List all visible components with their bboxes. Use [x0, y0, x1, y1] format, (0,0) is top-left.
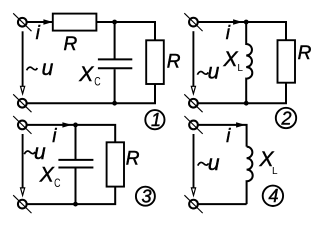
capacitor XC (circuit 3) — [58, 160, 93, 168]
wire (circuit 3 top) — [27, 125, 116, 142]
circled number 1 — [145, 110, 164, 130]
svg-text:L: L — [272, 166, 278, 177]
inductor XL (circuit 4) — [247, 147, 253, 205]
svg-text:L: L — [237, 63, 243, 74]
svg-text:R: R — [298, 43, 312, 64]
terminal J5 (circuit 3 top input) — [13, 116, 31, 134]
label ~u (circuit 4) — [198, 152, 220, 175]
svg-text:3: 3 — [142, 187, 152, 207]
svg-text:C: C — [94, 75, 101, 89]
svg-text:C: C — [54, 176, 61, 190]
terminal J6 (circuit 3 bottom) — [13, 195, 31, 213]
wire (circuit 1 top, R to right corner and down) — [96, 22, 155, 40]
terminal J8 (circuit 4 bottom) — [184, 195, 202, 213]
svg-text:u: u — [42, 57, 54, 80]
capacitor XC (circuit 1) — [98, 59, 132, 68]
terminal J4 (circuit 2 bottom) — [184, 94, 202, 112]
svg-text:u: u — [34, 141, 46, 164]
resistor R (circuit 2) — [278, 40, 296, 82]
resistor R series (circuit 1) — [53, 14, 97, 31]
wire (circuit 2 top) — [198, 22, 286, 40]
node (circuit 2 bottom junction) — [244, 101, 249, 106]
label XC (circuit 1) — [78, 63, 101, 89]
circled number 4 — [263, 186, 283, 207]
svg-text:X: X — [39, 164, 55, 187]
wire (circuit 3 capacitor bottom lead) — [75, 169, 77, 205]
current arrow i (circuit 3) — [62, 122, 71, 127]
svg-text:u: u — [208, 61, 220, 84]
wire (circuit 4 bottom) — [198, 203, 247, 205]
wire (circuit 1 capacitor bottom lead) — [114, 69, 116, 103]
circled number 3 — [136, 187, 155, 207]
node (circuit 1 top junction) — [112, 20, 117, 25]
label ~u (circuit 1) — [27, 57, 54, 80]
voltage arrow u (circuit 4) — [191, 134, 195, 195]
wire (circuit 1 bottom, R down and left to terminal) — [27, 84, 155, 103]
node (circuit 3 bottom junction) — [73, 202, 78, 207]
svg-text:u: u — [208, 152, 220, 175]
wire (circuit 3 bottom) — [27, 187, 115, 205]
terminal J7 (circuit 4 top input) — [184, 116, 202, 134]
node (circuit 2 top junction) — [244, 20, 249, 25]
voltage arrow u (circuit 3) — [21, 134, 25, 195]
label XL (circuit 2) — [223, 48, 244, 74]
inductor XL (circuit 2) — [246, 22, 252, 103]
svg-text:R: R — [167, 52, 181, 73]
terminal J1 (circuit 1 top input) — [13, 13, 31, 31]
wire (circuit 1 capacitor top lead) — [114, 22, 116, 59]
current arrow i (circuit 1) — [43, 19, 52, 24]
circled number 2 — [276, 108, 296, 129]
node (circuit 3 top junction) — [73, 123, 78, 128]
svg-text:R: R — [64, 34, 78, 55]
label XC (circuit 3) — [39, 164, 61, 190]
label ~u (circuit 2) — [197, 61, 219, 84]
wire (circuit 4 top) — [198, 125, 247, 147]
label ~u (circuit 3) — [24, 141, 46, 164]
terminal J3 (circuit 2 top input) — [184, 13, 202, 31]
resistor R parallel (circuit 1) — [146, 40, 164, 84]
voltage arrow u (circuit 1) — [21, 31, 25, 94]
wire (circuit 1 top, terminal to R) — [27, 21, 53, 23]
current arrow i (circuit 2) — [233, 19, 242, 24]
label XL (circuit 4) — [259, 148, 279, 177]
svg-text:X: X — [78, 63, 94, 86]
svg-text:2: 2 — [281, 108, 292, 128]
svg-text:1: 1 — [151, 110, 161, 130]
svg-text:4: 4 — [269, 186, 279, 206]
svg-text:X: X — [223, 48, 239, 71]
voltage arrow u (circuit 2) — [191, 31, 195, 94]
wire (circuit 2 bottom) — [198, 83, 286, 104]
node (circuit 1 bottom junction) — [112, 101, 117, 106]
current arrow i (circuit 4) — [236, 122, 245, 127]
svg-text:R: R — [126, 148, 140, 169]
terminal J2 (circuit 1 bottom) — [13, 94, 31, 112]
resistor R (circuit 3) — [107, 142, 124, 186]
wire (circuit 3 capacitor top lead) — [75, 125, 77, 159]
